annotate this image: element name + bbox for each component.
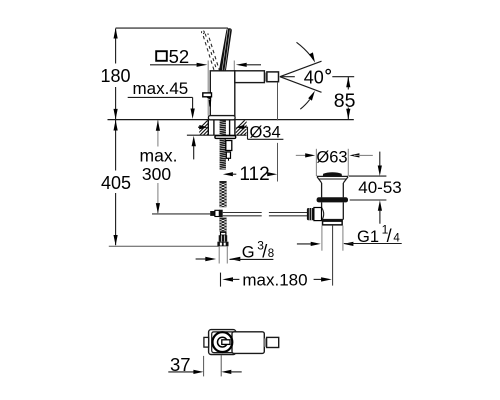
svg-text:405: 405 xyxy=(101,173,131,193)
dimension 180 xyxy=(100,28,130,119)
supply hose (braided) xyxy=(219,181,226,232)
deck hatch left xyxy=(192,120,226,136)
G1 1/4 extension lines xyxy=(322,226,343,251)
dimension 405 xyxy=(101,120,219,246)
svg-text:G: G xyxy=(242,244,255,262)
dimension 112 xyxy=(223,164,277,185)
svg-text:max.180: max.180 xyxy=(242,271,307,290)
extension line below spout tip xyxy=(277,82,279,181)
svg-text:85: 85 xyxy=(334,90,356,112)
svg-text:/: / xyxy=(387,226,392,246)
deck top line xyxy=(108,119,354,121)
pull rod right segments xyxy=(223,213,307,216)
svg-text:8: 8 xyxy=(268,248,274,260)
hose end hex xyxy=(219,235,228,242)
hose end nut xyxy=(217,242,228,247)
dimension G 3/8 xyxy=(196,239,275,262)
mounting washer xyxy=(215,136,236,139)
spray angle lines xyxy=(280,61,322,92)
dimension max.45 xyxy=(128,79,196,160)
top reference line xyxy=(116,27,228,29)
svg-text:52: 52 xyxy=(169,46,190,67)
deck hatch right xyxy=(229,120,263,136)
dimension max.180 xyxy=(221,271,332,290)
base plate xyxy=(208,116,235,120)
extension line left (sq52) xyxy=(207,61,209,116)
svg-text:/: / xyxy=(262,242,267,262)
svg-text:Ø63: Ø63 xyxy=(316,149,347,167)
drain coupling xyxy=(322,220,343,226)
dimension 40-53 xyxy=(349,152,402,224)
top view: handle square xyxy=(209,330,236,355)
svg-text:40-53: 40-53 xyxy=(358,178,401,197)
svg-text:4: 4 xyxy=(393,233,400,245)
svg-text:300: 300 xyxy=(142,164,171,184)
faucet body (side view) xyxy=(210,71,264,116)
lever solid xyxy=(219,28,232,71)
dimension Ø63 xyxy=(296,149,373,177)
curved arrow upper xyxy=(297,42,316,62)
hose stub extension lines xyxy=(219,246,227,263)
drain side knob xyxy=(307,208,322,221)
dimension square 52 xyxy=(150,46,261,67)
mounting bracket xyxy=(226,141,232,161)
pull rod left segment xyxy=(152,213,210,215)
deck bottom line xyxy=(187,134,247,136)
top view: left tab xyxy=(204,337,209,347)
hose end white band xyxy=(221,232,226,235)
top view: handle circles xyxy=(213,332,233,352)
side tab on body xyxy=(203,93,212,107)
drain plug xyxy=(323,172,342,176)
top view: aerator sliver xyxy=(264,338,266,346)
dimension max.300 xyxy=(140,120,178,213)
Ø34 hole arrows xyxy=(198,125,248,129)
svg-text:max.45: max.45 xyxy=(133,79,189,98)
curved arrow lower xyxy=(300,91,315,109)
top view: body xyxy=(232,332,264,354)
label 40 deg xyxy=(304,68,355,88)
dimension 37 xyxy=(168,354,241,377)
dimension 85 xyxy=(334,77,356,120)
svg-text:112: 112 xyxy=(239,164,269,185)
svg-text:max.: max. xyxy=(140,145,178,165)
drain flange xyxy=(317,176,348,183)
drain body upper xyxy=(322,183,344,198)
svg-text:40: 40 xyxy=(304,68,324,88)
extension line right (sq52) xyxy=(233,61,235,116)
drain centerline xyxy=(332,226,334,286)
dimension G1 1/4 xyxy=(297,222,402,246)
svg-text:Ø34: Ø34 xyxy=(250,124,281,142)
svg-text:G1: G1 xyxy=(357,228,379,246)
aerator xyxy=(265,72,279,82)
top view: aerator tip xyxy=(267,337,279,347)
under-deck shank walls xyxy=(208,120,235,136)
label Ø34 xyxy=(248,124,284,142)
drain body lower xyxy=(322,202,344,220)
drain o-ring xyxy=(317,197,348,202)
threaded rod xyxy=(220,120,226,170)
rod fitting at hose xyxy=(210,210,223,217)
svg-text:180: 180 xyxy=(100,66,130,86)
lever phantom (dashed) xyxy=(202,31,220,70)
